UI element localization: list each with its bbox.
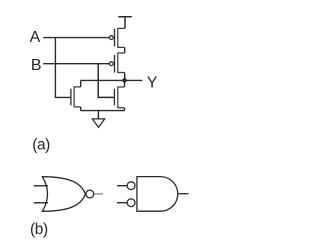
transistor Q2 gate bubble <box>110 62 114 66</box>
transistor Q1 gate bar <box>114 29 116 47</box>
wire Q4 drain riser to Y node <box>124 80 126 87</box>
ground symbol triangle <box>92 119 104 127</box>
wire input A horizontal <box>43 37 109 39</box>
wire output Y horizontal <box>81 79 143 81</box>
wire Q3 source drop to ground rail <box>80 107 82 111</box>
NOR gate U1 input stub 2 <box>34 202 48 204</box>
wire Q2 drain drop to output node <box>124 73 126 81</box>
transistor Q2 PMOS (input B) channel bracket <box>118 53 125 73</box>
AND gate U2 output stub <box>178 193 188 195</box>
NOR gate U1 output bubble <box>86 190 94 198</box>
wire B vertical drop to Q4 gate <box>98 64 114 98</box>
transistor Q3 NMOS (input A) gate bar <box>70 89 72 106</box>
wire Q3 drain riser to Y line <box>80 80 82 87</box>
transistor Q1 PMOS (input A) channel bracket <box>118 28 125 47</box>
wire input B horizontal <box>43 63 109 65</box>
NOR gate U1 output stub <box>94 193 103 195</box>
NOR gate U1 body <box>42 177 85 212</box>
AND gate U2 input stub 2 <box>117 202 127 204</box>
svg-text:Y: Y <box>147 74 158 91</box>
svg-text:(a): (a) <box>32 136 50 153</box>
wire ground rail <box>81 110 125 112</box>
wire ground stem <box>97 111 99 119</box>
svg-text:B: B <box>31 57 42 74</box>
NOR gate U1 input stub 1 <box>34 185 48 187</box>
node Y junction dot <box>122 78 127 83</box>
AND gate U2 input bubble 2 <box>127 199 135 207</box>
transistor Q4 NMOS (input B) gate bar <box>113 89 115 106</box>
svg-text:(b): (b) <box>30 221 48 238</box>
transistor Q1 gate bubble <box>110 36 114 40</box>
svg-text:A: A <box>30 29 41 46</box>
transistor Q2 gate bar <box>114 55 116 73</box>
transistor Q4 NMOS channel bracket <box>118 87 125 108</box>
wire Q1 drain to Q2 source connector <box>124 47 126 53</box>
wire Q4 source drop to ground rail <box>124 108 126 111</box>
transistor Q3 NMOS channel bracket <box>74 87 81 107</box>
AND gate U2 body (De Morgan equivalent) <box>137 177 178 212</box>
AND gate U2 input stub 1 <box>117 185 127 187</box>
AND gate U2 input bubble 1 <box>127 182 135 190</box>
wire A vertical drop to Q3 gate <box>55 38 70 98</box>
VDD power symbol <box>118 17 132 29</box>
